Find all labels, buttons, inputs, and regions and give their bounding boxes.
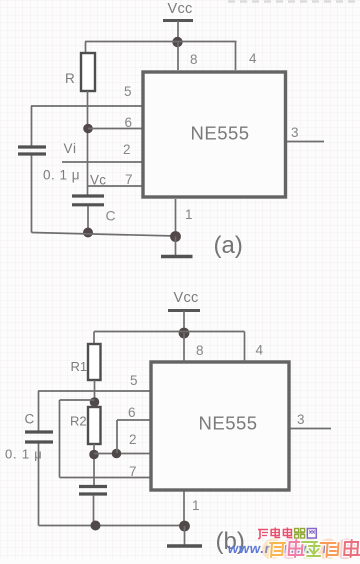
node Vc label: [90, 173, 106, 188]
svg-text:3: 3: [297, 412, 305, 427]
svg-text:Vi: Vi: [64, 141, 77, 156]
wire 0.1u cap bottom down (a): [31, 156, 33, 233]
wire pin 3 output (a): [287, 141, 324, 143]
pin number 5 (b): [130, 373, 138, 388]
wire junction to ground (a): [175, 237, 177, 256]
resistor R1: [88, 344, 101, 380]
wire top rail (b): [94, 331, 245, 333]
pin number 8 (a): [190, 52, 198, 67]
NE555 label (b): [199, 413, 258, 434]
wire bracket left vertical (b): [59, 400, 61, 478]
wire pin 1 (b): [183, 490, 185, 526]
svg-text:5: 5: [124, 84, 132, 99]
svg-text:3: 3: [291, 125, 299, 140]
wire pin 6 (a): [88, 128, 144, 130]
svg-text:Vc: Vc: [90, 173, 106, 188]
pin number 4 (a): [249, 51, 257, 66]
svg-text:6: 6: [125, 115, 133, 130]
svg-text:2: 2: [123, 142, 131, 157]
capacitor C (a) plates: [72, 196, 104, 205]
capacitor C (b) left branch wire upper: [38, 391, 40, 431]
pin number 7 (b): [129, 464, 137, 479]
svg-text:R: R: [65, 71, 75, 86]
wire pin 5 (a): [31, 105, 144, 107]
pin number 8 (b): [196, 343, 204, 358]
pin number 3 (b): [297, 412, 305, 427]
wire pin 3 output (b): [291, 428, 332, 430]
svg-text:4: 4: [249, 51, 257, 66]
op-amp U1 NE555 box (a): [143, 72, 286, 197]
capacitor 0.1u value label (a): [43, 168, 80, 183]
svg-text:R1: R1: [71, 359, 88, 374]
svg-text:8: 8: [190, 52, 198, 67]
wire cap C bottom to bottom rail (a): [87, 206, 89, 233]
svg-text:0. 1 μ: 0. 1 μ: [5, 447, 43, 462]
svg-text:1: 1: [192, 498, 200, 513]
wire pin 6 (b): [117, 419, 150, 421]
wire C bottom down (b): [38, 444, 40, 526]
wire pin 4 (a): [235, 42, 237, 71]
wire rail to resistor R1 top: [93, 332, 95, 345]
timing capacitor (b) plates: [79, 487, 107, 495]
pin number 2 (a): [123, 142, 131, 157]
resistor R: [81, 53, 95, 91]
resistor R2: [88, 407, 101, 444]
svg-text:5: 5: [130, 373, 138, 388]
wire pin 1 (a): [175, 199, 177, 237]
wire pin 7 (b): [60, 477, 151, 479]
svg-text:C: C: [25, 412, 35, 427]
wire pin 8 (b): [183, 333, 185, 362]
capacitor 0.1u value label (b): [5, 447, 43, 462]
wire R2 bottom down to cap (b): [93, 444, 95, 485]
wire pin 4 (b): [244, 332, 246, 363]
svg-text:0. 1 μ: 0. 1 μ: [43, 168, 80, 183]
node Vcc (a) label: [168, 1, 193, 17]
wire pin 6 branch vertical (b): [116, 420, 118, 453]
wire pin 8 (a): [177, 42, 179, 70]
svg-text:2: 2: [129, 432, 137, 447]
capacitor 0.1u (a) plates: [18, 147, 46, 154]
wire bottom rail (b): [39, 525, 185, 527]
junction dot cap C bottom rail (a): [83, 228, 93, 238]
wire rail to resistor R top: [85, 42, 87, 54]
wire R1 bottom to R2 top: [94, 380, 96, 407]
svg-text:Vcc: Vcc: [168, 1, 193, 17]
junction dot pin 1 ground (a): [170, 231, 181, 242]
pin number 2 (b): [129, 432, 137, 447]
svg-text:R2: R2: [70, 414, 87, 429]
ground bar (b): [167, 544, 202, 547]
wire pin 5 (b): [38, 390, 150, 392]
watermark: [226, 541, 333, 556]
NE555 label (a): [191, 123, 250, 144]
junction dot R1 R2 (b): [90, 397, 100, 407]
wire Vcc bar to junction (b): [183, 311, 185, 333]
pin number 6 (a): [125, 115, 133, 130]
resistor R1 label: [71, 359, 88, 374]
svg-text:8: 8: [196, 343, 204, 358]
pin number 6 (b): [128, 405, 136, 420]
op-amp U2 NE555 box (b): [151, 362, 289, 490]
wire timing cap to bottom rail (b): [93, 495, 95, 526]
subcircuit label (a): [214, 232, 243, 259]
resistor R label: [65, 71, 75, 86]
wire top rail (a): [85, 41, 237, 43]
pin number 5 (a): [124, 84, 132, 99]
capacitor C (b) plates: [25, 432, 53, 442]
junction dot pins 6-2 (a): [83, 124, 93, 134]
pin number 7 (a): [125, 172, 133, 187]
junction dot R2 bottom (b): [89, 450, 99, 460]
node Vi label: [64, 141, 77, 156]
svg-text:NE555: NE555: [191, 123, 250, 144]
wire pin 7 (a): [87, 185, 144, 187]
wire bottom rail (a): [32, 233, 176, 237]
svg-text:6: 6: [128, 405, 136, 420]
svg-text:7: 7: [125, 172, 133, 187]
pin number 1 (b): [192, 498, 200, 513]
subcircuit label (b): [216, 528, 245, 555]
wire bracket top to junction (b): [60, 399, 95, 401]
wire pin 2 (a): [62, 161, 144, 163]
svg-text:(a): (a): [214, 232, 243, 259]
wire junction to ground (b): [184, 526, 186, 545]
svg-text:Vcc: Vcc: [174, 290, 199, 306]
svg-text:NE555: NE555: [199, 413, 258, 434]
pin number 4 (b): [256, 343, 264, 358]
capacitor C label (b): [25, 412, 35, 427]
pin number 1 (a): [185, 207, 193, 222]
wire resistor R bottom down to cap C (a): [87, 91, 89, 195]
capacitor C label (a): [106, 208, 116, 224]
svg-text:4: 4: [256, 343, 264, 358]
resistor R2 label: [70, 414, 87, 429]
ground bar (a): [161, 255, 193, 258]
junction dot pin 1 ground (b): [179, 521, 190, 532]
svg-text:1: 1: [185, 207, 193, 222]
node Vcc (b) label: [174, 290, 199, 306]
pin number 3 (a): [291, 125, 299, 140]
Vcc rail bar (a): [163, 19, 193, 22]
junction dot pin 6 branch (b): [112, 449, 122, 459]
capacitor 0.1u (a) branch wire upper: [31, 106, 33, 146]
wire pin 2 (b): [94, 453, 150, 455]
svg-text:7: 7: [129, 464, 137, 479]
junction dot Vcc (b): [179, 328, 190, 339]
junction dot bottom rail cap (b): [91, 521, 101, 531]
junction dot Vcc (a): [172, 37, 182, 47]
svg-text:C: C: [106, 208, 116, 224]
wire Vcc bar to junction (a): [177, 21, 179, 42]
Vcc rail bar (b): [168, 309, 200, 312]
